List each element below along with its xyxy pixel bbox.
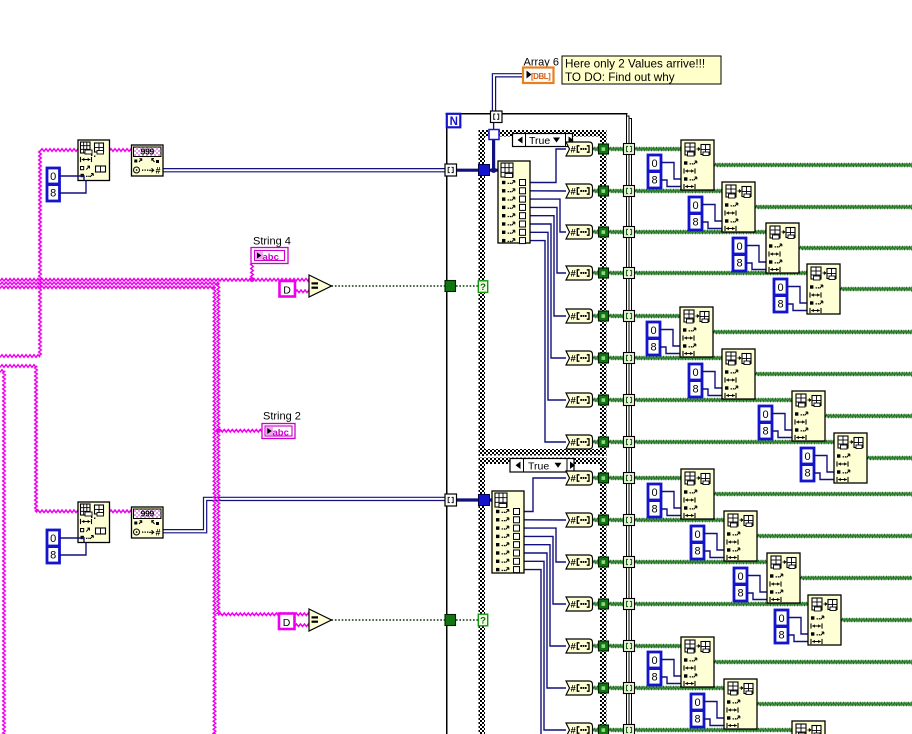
node ArraySubset case2 row5 constants 0 and 8 bbox=[648, 652, 682, 685]
wire boolean-array case1 row1 output to right edge bbox=[714, 164, 912, 167]
node ArraySubset case1 row2 bbox=[722, 182, 755, 232]
wires constants to StringSubset2 bbox=[60, 538, 87, 555]
node DecimalStringToNumber2 bbox=[132, 507, 164, 538]
wire boolean-array case1 row3 (tunnel to cluster) bbox=[593, 231, 769, 234]
wire boolean-array case1 row5 (tunnel to cluster) bbox=[593, 315, 683, 318]
wire string StringSubset1 to DecStr1 bbox=[109, 149, 132, 152]
wires IndexArray2 outputs to ArraySize nodes bbox=[521, 478, 566, 734]
node ArraySubset case1 row3 bbox=[766, 223, 799, 273]
svg-text:True: True bbox=[528, 460, 549, 472]
wire boolean-array case2 row6 (tunnel to cluster) bbox=[593, 687, 727, 690]
svg-text:8: 8 bbox=[736, 257, 742, 269]
svg-text:8: 8 bbox=[694, 713, 700, 725]
svg-text:#: # bbox=[571, 354, 577, 365]
svg-text:#: # bbox=[571, 516, 577, 527]
wire boolean-array case1 row7 output to right edge bbox=[825, 415, 912, 418]
svg-text:0: 0 bbox=[50, 171, 56, 183]
case structure 1 border bbox=[479, 130, 607, 456]
svg-text:0: 0 bbox=[777, 282, 783, 294]
svg-text:[DBL]: [DBL] bbox=[531, 72, 551, 81]
wire boolean-array case1 row3 output to right edge bbox=[799, 247, 912, 250]
svg-text:D: D bbox=[283, 617, 291, 629]
loop [] tunnel case2 row1 bbox=[624, 473, 635, 484]
node ArraySize case2 row3 bbox=[566, 555, 593, 569]
svg-text:8: 8 bbox=[651, 503, 657, 515]
node ArraySubset case2 row5 bbox=[681, 637, 714, 687]
case1 green tunnel row5 bbox=[599, 311, 609, 321]
svg-text:0: 0 bbox=[651, 655, 657, 667]
case2 selector tunnel ? bbox=[478, 614, 487, 626]
svg-text:#: # bbox=[571, 726, 577, 734]
node ArraySubset case1 row5 bbox=[680, 307, 713, 357]
case2 green tunnel row4 bbox=[599, 599, 609, 609]
loop [] tunnel case2 row5 bbox=[624, 641, 635, 652]
node ArraySize case1 row1 bbox=[566, 142, 593, 156]
case1 green tunnel row2 bbox=[599, 186, 609, 196]
svg-text:0: 0 bbox=[778, 613, 784, 625]
wire boolean-array case2 row3 (tunnel to cluster) bbox=[593, 561, 770, 564]
wire boolean Equal1 to case1 selector bbox=[332, 285, 479, 287]
svg-text:0: 0 bbox=[694, 697, 700, 709]
node Equal1 (=) bbox=[309, 275, 332, 297]
node Equal2 (=) bbox=[309, 609, 332, 631]
svg-text:0: 0 bbox=[50, 533, 56, 545]
wire boolean-array case1 row4 (tunnel to cluster) bbox=[593, 272, 810, 275]
node ArraySubset case2 row2 constants 0 and 8 bbox=[691, 526, 725, 559]
svg-text:8: 8 bbox=[651, 671, 657, 683]
node ArraySubset case2 row1 constants 0 and 8 bbox=[648, 484, 682, 517]
node ArraySubset case2 row4 constants 0 and 8 bbox=[775, 610, 809, 643]
case2 green tunnel row6 bbox=[599, 683, 609, 693]
loop [] tunnel case1 row6 bbox=[624, 353, 635, 364]
wire thick array inside case2 to IndexArray2 bbox=[456, 498, 493, 501]
case2 green tunnel row7 bbox=[599, 725, 609, 734]
svg-text:D: D bbox=[283, 284, 291, 296]
svg-text:#: # bbox=[571, 228, 577, 239]
loop top tunnel to Array 6 bbox=[491, 111, 503, 123]
svg-text:#: # bbox=[571, 642, 577, 653]
node IndexArray1 (expanded, 8 outputs) bbox=[498, 161, 530, 244]
node ArraySubset case2 row2 bbox=[724, 511, 757, 561]
wire boolean-array case2 row4 output to right edge bbox=[841, 619, 912, 622]
wire boolean-array case1 row4 output to right edge bbox=[840, 288, 912, 291]
svg-text:String 4: String 4 bbox=[253, 236, 291, 248]
node ArraySize case2 row6 bbox=[566, 681, 593, 695]
node ArraySubset case1 row6 constants 0 and 8 bbox=[689, 364, 723, 397]
for loop border bbox=[446, 113, 633, 734]
svg-text:8: 8 bbox=[50, 549, 56, 561]
node ArraySize case1 row2 bbox=[566, 184, 593, 198]
svg-text:#: # bbox=[571, 187, 577, 198]
node IndexArray2 (expanded, 8 outputs) bbox=[492, 491, 524, 573]
wire boolean-array case1 row5 output to right edge bbox=[713, 331, 912, 334]
wire thick array inside case1 to IndexArray1 bbox=[456, 121, 498, 172]
svg-text:999: 999 bbox=[141, 509, 155, 519]
svg-text:0: 0 bbox=[736, 241, 742, 253]
wire boolean Equal2 to case2 selector bbox=[332, 619, 479, 621]
svg-text:#: # bbox=[571, 269, 577, 280]
wire boolean-array case2 row3 output to right edge bbox=[800, 577, 912, 580]
wire string constant D1 to Equal1 bbox=[295, 290, 309, 293]
wire string feeding StringSubset1 bbox=[0, 149, 78, 358]
svg-text:TO DO: Find out why: TO DO: Find out why bbox=[565, 71, 675, 84]
constants 0 and 8 for StringSubset1 bbox=[47, 168, 61, 201]
case1 green tunnel row6 bbox=[599, 353, 609, 363]
svg-text:#: # bbox=[571, 312, 577, 323]
comment box bbox=[562, 56, 721, 84]
case structure 2 border bbox=[479, 458, 607, 734]
case2 green tunnel row2 bbox=[599, 515, 609, 525]
svg-text:0: 0 bbox=[804, 451, 810, 463]
node ArraySize case1 row3 bbox=[566, 225, 593, 239]
loop tunnel boolean selector 1 bbox=[445, 281, 456, 292]
node ArraySubset case2 row4 bbox=[808, 595, 841, 645]
svg-text:8: 8 bbox=[692, 383, 698, 395]
svg-text:abc: abc bbox=[263, 252, 279, 263]
loop [] tunnel case2 row2 bbox=[624, 515, 635, 526]
svg-text:8: 8 bbox=[694, 545, 700, 557]
node ArraySubset case2 row3 bbox=[767, 553, 800, 603]
string constant D2 bbox=[279, 614, 295, 630]
wire boolean-array case1 row6 (tunnel to cluster) bbox=[593, 357, 725, 360]
loop tunnel boolean selector 2 bbox=[445, 615, 456, 626]
svg-text:999: 999 bbox=[141, 147, 155, 157]
loop [] tunnel case1 row8 bbox=[624, 437, 635, 448]
case1 green tunnel row8 bbox=[599, 437, 609, 447]
loop [] tunnel case1 row2 bbox=[624, 186, 635, 197]
wire string feeding StringSubset2 bbox=[0, 365, 78, 513]
loop tunnel array input 2 bbox=[445, 494, 457, 506]
svg-text:8: 8 bbox=[50, 187, 56, 199]
case1 selector tunnel ? bbox=[478, 281, 487, 293]
loop [] tunnel case2 row4 bbox=[624, 599, 635, 610]
node ArraySize case1 row6 bbox=[566, 351, 593, 365]
node ArraySize case2 row1 bbox=[566, 471, 593, 485]
wire string 1 from left edge to Equal1 with branch to String 4 bbox=[0, 263, 309, 283]
junction dot case1 array wire bbox=[491, 168, 496, 173]
svg-text:#: # bbox=[571, 396, 577, 407]
case structure 2 selector label True bbox=[510, 459, 575, 473]
node ArraySubset case1 row1 bbox=[681, 140, 714, 190]
wire boolean-array case2 row4 (tunnel to cluster) bbox=[593, 603, 811, 606]
wire boolean-array case2 row1 (tunnel to cluster) bbox=[593, 477, 684, 480]
wire boolean-array case1 row8 (tunnel to cluster) bbox=[593, 441, 837, 444]
node ArraySize case1 row8 bbox=[566, 435, 593, 449]
case2 green tunnel row3 bbox=[599, 557, 609, 567]
wire boolean-array case1 row2 (tunnel to cluster) bbox=[593, 190, 725, 193]
node ArraySubset case2 row3 constants 0 and 8 bbox=[734, 568, 768, 601]
wire string 2 from left edge down to Equal2 with branch to String 2 indicator bbox=[0, 282, 309, 615]
node ArraySubset case1 row2 constants 0 and 8 bbox=[689, 197, 723, 230]
node ArraySubset case2 row6 bbox=[724, 679, 757, 729]
node ArraySubset case2 row6 constants 0 and 8 bbox=[691, 694, 725, 727]
svg-text:8: 8 bbox=[762, 425, 768, 437]
loop [] tunnel case1 row4 bbox=[624, 268, 635, 279]
node ArraySubset case1 row8 constants 0 and 8 bbox=[801, 448, 835, 481]
node ArraySize case2 row7 bbox=[566, 723, 593, 734]
wire boolean-array case2 row2 output to right edge bbox=[757, 535, 912, 538]
node ArraySubset case2 row1 bbox=[681, 469, 714, 519]
node ArraySize case2 row4 bbox=[566, 597, 593, 611]
indicator String 2 bbox=[262, 424, 295, 439]
node ArraySize case2 row2 bbox=[566, 513, 593, 527]
node ArraySubset case1 row4 constants 0 and 8 bbox=[774, 279, 808, 312]
svg-text:#: # bbox=[571, 474, 577, 485]
case2 tunnel array input (linked) bbox=[479, 495, 490, 506]
svg-text:0: 0 bbox=[692, 200, 698, 212]
svg-text:8: 8 bbox=[804, 467, 810, 479]
svg-text:0: 0 bbox=[694, 529, 700, 541]
svg-text:Here only 2 Values arrive!!!: Here only 2 Values arrive!!! bbox=[565, 58, 705, 71]
loop [] tunnel case2 row3 bbox=[624, 557, 635, 568]
wires IndexArray1 outputs to ArraySize nodes bbox=[527, 149, 566, 442]
wire numeric-array up to Array 6 indicator (double line) bbox=[492, 74, 523, 112]
case structure 1 selector label True bbox=[513, 134, 574, 147]
svg-text:8: 8 bbox=[692, 216, 698, 228]
wire boolean-array case1 row2 output to right edge bbox=[755, 206, 912, 209]
wire numeric-array from DecStr2 up to loop tunnel (double line) bbox=[163, 497, 445, 533]
svg-text:8: 8 bbox=[737, 587, 743, 599]
svg-text:abc: abc bbox=[273, 427, 289, 438]
svg-text:8: 8 bbox=[778, 629, 784, 641]
loop [] tunnel case1 row5 bbox=[624, 311, 635, 322]
case2 green tunnel row1 bbox=[599, 473, 609, 483]
node ArraySubset case1 row8 bbox=[834, 433, 867, 483]
svg-text:8: 8 bbox=[777, 298, 783, 310]
svg-text:#: # bbox=[571, 558, 577, 569]
case1 top tunnel array out bbox=[489, 130, 499, 140]
svg-text:8: 8 bbox=[650, 341, 656, 353]
indicator String 4 bbox=[251, 248, 288, 264]
wire numeric-array from DecStr1 to loop tunnel (double line) bbox=[163, 169, 445, 172]
node ArraySubset case1 row4 bbox=[807, 264, 840, 314]
wire boolean-array case2 row6 output to right edge bbox=[757, 703, 912, 706]
wire boolean-array case1 row7 (tunnel to cluster) bbox=[593, 399, 795, 402]
svg-text:#: # bbox=[571, 145, 577, 156]
svg-text:#: # bbox=[571, 438, 577, 449]
svg-text:8: 8 bbox=[651, 174, 657, 186]
wire boolean-array case1 row1 (tunnel to cluster) bbox=[593, 148, 684, 151]
wire boolean-array case2 row1 output to right edge bbox=[714, 493, 912, 496]
wire string down left edge to bottom bbox=[0, 370, 5, 734]
case1 green tunnel row7 bbox=[599, 395, 609, 405]
svg-text:True: True bbox=[529, 135, 550, 147]
svg-text:N: N bbox=[450, 116, 458, 128]
svg-text:0: 0 bbox=[762, 409, 768, 421]
wire boolean-array case2 row2 (tunnel to cluster) bbox=[593, 519, 727, 522]
svg-text:?: ? bbox=[480, 615, 486, 626]
loop [] tunnel case2 row7 bbox=[624, 725, 635, 734]
node ArraySize case1 row7 bbox=[566, 393, 593, 407]
node DecimalStringToNumber1 bbox=[132, 145, 164, 176]
node ArraySubset case1 row7 bbox=[792, 391, 825, 441]
svg-text:#: # bbox=[571, 684, 577, 695]
loop tunnel array input 1 bbox=[445, 164, 457, 176]
wire boolean-array case1 row8 output to right edge bbox=[867, 457, 912, 460]
node StringSubset2 bbox=[78, 502, 110, 543]
case1 tunnel array input (linked) bbox=[479, 165, 490, 176]
svg-text:0: 0 bbox=[651, 158, 657, 170]
wire string StringSubset2 to DecStr2 bbox=[109, 510, 132, 513]
string constant D1 bbox=[280, 281, 296, 297]
constants 0 and 8 for StringSubset2 bbox=[47, 530, 61, 563]
node ArraySubset case1 row3 constants 0 and 8 bbox=[733, 238, 767, 271]
node ArraySize case2 row5 bbox=[566, 639, 593, 653]
label String 2 bbox=[263, 411, 301, 423]
loop [] tunnel case1 row7 bbox=[624, 395, 635, 406]
wire boolean-array case1 row6 output to right edge bbox=[755, 373, 912, 376]
loop [] tunnel case2 row6 bbox=[624, 683, 635, 694]
wire boolean-array case2 row5 output to right edge bbox=[714, 661, 912, 664]
label Array 6 bbox=[524, 57, 559, 69]
node StringSubset1 bbox=[78, 140, 110, 181]
svg-text:0: 0 bbox=[650, 325, 656, 337]
svg-text:String 2: String 2 bbox=[263, 411, 301, 423]
svg-text:?: ? bbox=[480, 282, 486, 293]
wires constants to StringSubset1 bbox=[60, 176, 87, 193]
wire boolean-array case2 row5 (tunnel to cluster) bbox=[593, 645, 684, 648]
loop [] tunnel case1 row3 bbox=[624, 227, 635, 238]
loop [] tunnel case1 row1 bbox=[624, 144, 635, 155]
for loop count terminal N bbox=[447, 114, 461, 128]
label String 4 bbox=[253, 236, 291, 248]
wire string constant D2 to Equal2 bbox=[295, 624, 310, 627]
svg-text:#: # bbox=[571, 600, 577, 611]
node ArraySubset case2 row7 bbox=[792, 721, 825, 734]
wire boolean-array case2 row7 (tunnel to cluster) bbox=[593, 729, 795, 732]
wire string 3 from left edge down to bottom edge bbox=[0, 286, 216, 734]
node ArraySubset case1 row7 constants 0 and 8 bbox=[759, 406, 793, 439]
svg-text:0: 0 bbox=[651, 487, 657, 499]
svg-text:#: # bbox=[156, 528, 161, 538]
node ArraySubset case1 row5 constants 0 and 8 bbox=[647, 322, 681, 355]
case1 green tunnel row3 bbox=[599, 227, 609, 237]
node ArraySubset case1 row6 bbox=[722, 349, 755, 399]
svg-text:0: 0 bbox=[692, 367, 698, 379]
svg-text:#: # bbox=[156, 166, 161, 176]
svg-text:0: 0 bbox=[737, 571, 743, 583]
node ArraySize case1 row5 bbox=[566, 309, 593, 323]
node ArraySubset case1 row1 constants 0 and 8 bbox=[648, 155, 682, 188]
node ArraySize case1 row4 bbox=[566, 266, 593, 280]
case1 green tunnel row4 bbox=[599, 268, 609, 278]
case2 green tunnel row5 bbox=[599, 641, 609, 651]
indicator Array 6 [DBL] bbox=[523, 68, 554, 84]
case1 green tunnel row1 bbox=[599, 144, 609, 154]
